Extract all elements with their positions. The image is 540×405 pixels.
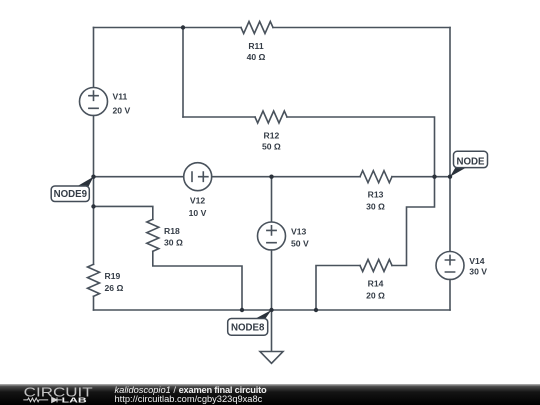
label V13 value bbox=[291, 226, 309, 248]
svg-text:50 V: 50 V bbox=[291, 239, 309, 249]
svg-text:R13: R13 bbox=[368, 189, 384, 199]
voltage source V13 bbox=[258, 222, 286, 250]
wire left vertical upper bbox=[93, 28, 95, 88]
label V11 value bbox=[113, 92, 131, 116]
label V12 value bbox=[189, 196, 207, 218]
wire V13 bottom bbox=[271, 250, 273, 310]
svg-text:R11: R11 bbox=[248, 41, 264, 51]
node junction bottom R18 bbox=[240, 308, 244, 312]
svg-text:26 Ω: 26 Ω bbox=[105, 283, 124, 293]
CircuitLab logo bbox=[20, 385, 130, 405]
voltage source V14 bbox=[436, 252, 464, 280]
label R11 value bbox=[247, 41, 266, 62]
wire ground stub bbox=[271, 310, 273, 352]
wire middle right bbox=[392, 176, 450, 178]
label R19 value bbox=[105, 271, 124, 293]
wire R12 branch left bbox=[183, 116, 255, 118]
wire R14 left branch bbox=[316, 266, 360, 311]
wire top right horizontal bbox=[273, 27, 450, 29]
wire bottom horizontal bbox=[94, 309, 451, 311]
wire R14 step bbox=[392, 177, 435, 266]
resistor R18 bbox=[147, 219, 159, 251]
node flag NODE bbox=[450, 151, 488, 176]
node junction R18 tap bbox=[91, 204, 95, 208]
voltage source V11 bbox=[80, 88, 108, 116]
wire right vertical upper bbox=[449, 28, 451, 252]
label V14 value bbox=[469, 256, 487, 276]
svg-text:50 Ω: 50 Ω bbox=[262, 142, 281, 152]
label R14 value bbox=[366, 278, 385, 300]
svg-text:10 V: 10 V bbox=[189, 208, 207, 218]
resistor R19 bbox=[88, 264, 100, 296]
svg-text:V12: V12 bbox=[190, 196, 206, 206]
label R12 value bbox=[262, 130, 281, 151]
svg-text:20 Ω: 20 Ω bbox=[366, 290, 385, 300]
node junction V13 top bbox=[269, 175, 273, 179]
svg-text:30 Ω: 30 Ω bbox=[366, 201, 385, 211]
wire left vertical middle bbox=[93, 116, 95, 265]
label R13 value bbox=[366, 189, 385, 211]
label R18 value bbox=[164, 226, 183, 248]
node flag NODE9 bbox=[51, 177, 93, 202]
node junction top bbox=[181, 25, 185, 29]
node junction bottom R14 bbox=[314, 308, 318, 312]
svg-text:30 V: 30 V bbox=[469, 267, 487, 277]
wire V13 top bbox=[271, 177, 273, 222]
svg-text:R19: R19 bbox=[105, 271, 121, 281]
resistor R11 bbox=[241, 22, 273, 34]
svg-text:NODE9: NODE9 bbox=[54, 189, 88, 200]
svg-text:V14: V14 bbox=[469, 256, 485, 266]
resistor R12 bbox=[255, 111, 287, 123]
wire middle left bbox=[94, 176, 184, 178]
node junction NODE8 bbox=[269, 308, 273, 312]
svg-text:V11: V11 bbox=[113, 92, 128, 102]
svg-text:NODE8: NODE8 bbox=[231, 323, 265, 334]
svg-text:R12: R12 bbox=[264, 130, 280, 140]
svg-text:20 V: 20 V bbox=[113, 106, 131, 116]
node junction NODE9 bbox=[91, 175, 95, 179]
wire right vertical lower bbox=[449, 280, 451, 311]
wire R18 branch top bbox=[94, 206, 153, 219]
voltage source V12 bbox=[184, 163, 212, 191]
footer caption text bbox=[115, 386, 415, 405]
node flag NODE8 bbox=[228, 310, 272, 335]
footer bar bbox=[0, 384, 540, 405]
svg-text:R18: R18 bbox=[164, 226, 180, 236]
svg-text:R14: R14 bbox=[368, 278, 384, 288]
svg-text:V13: V13 bbox=[291, 226, 307, 236]
wire top left horizontal bbox=[94, 27, 242, 29]
wire R18 branch bottom bbox=[153, 251, 242, 310]
resistor R13 bbox=[360, 171, 392, 183]
wire left vertical lower bbox=[93, 296, 95, 310]
wire R12 branch right bbox=[287, 117, 435, 177]
svg-text:40 Ω: 40 Ω bbox=[247, 52, 266, 62]
resistor R14 bbox=[360, 260, 392, 272]
svg-text:LAB: LAB bbox=[62, 395, 88, 404]
node junction R13 right bbox=[432, 175, 436, 179]
wire middle center bbox=[212, 176, 360, 178]
svg-text:NODE: NODE bbox=[457, 156, 486, 167]
ground bbox=[260, 352, 283, 364]
node junction NODE right bbox=[448, 175, 452, 179]
svg-text:30 Ω: 30 Ω bbox=[164, 238, 183, 248]
wire R12 branch vertical bbox=[182, 28, 184, 118]
